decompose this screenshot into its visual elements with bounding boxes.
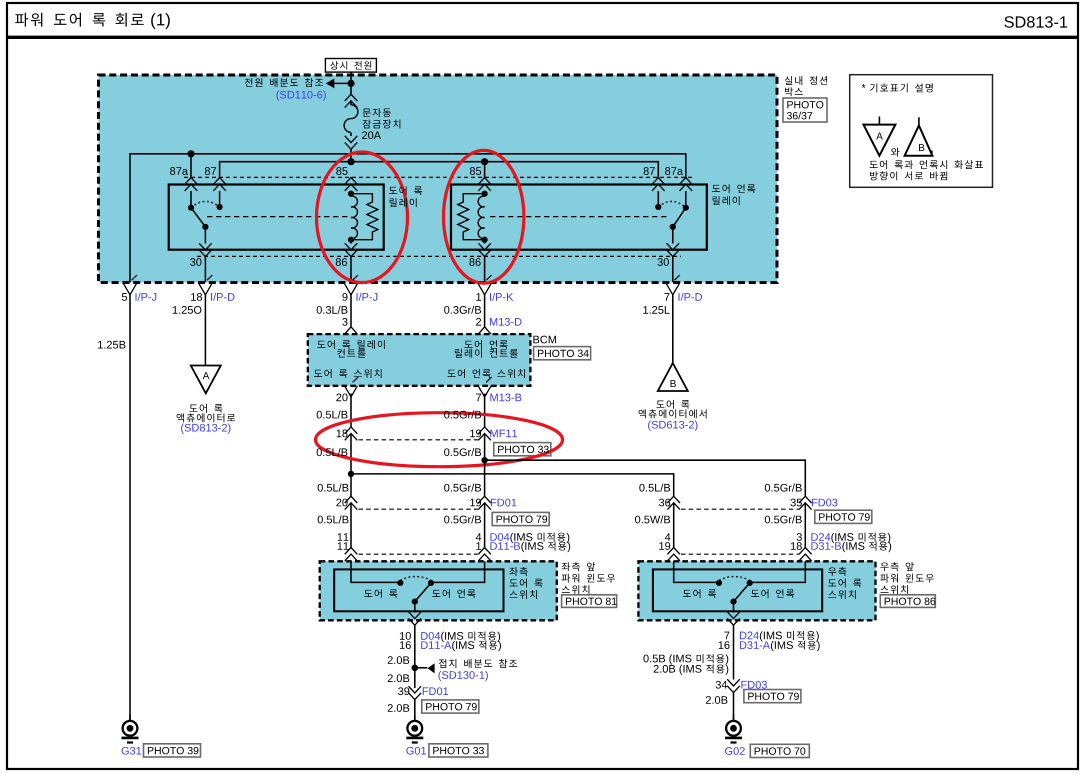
wire I/P-J 1.25B down to G31	[129, 295, 131, 721]
wire pin86 K1 to border	[350, 257, 352, 282]
left front power window switch (door lock switch) lever output wire	[414, 602, 416, 613]
relay K1 resistor	[351, 194, 378, 240]
photo ref G31	[144, 744, 201, 757]
off-page triangle A (to door lock actuator)	[191, 366, 221, 394]
wire 85 right drop	[484, 162, 486, 178]
wire FD03 pin35 down	[804, 503, 806, 548]
left front power window switch (door lock switch) unlock side wire	[431, 561, 485, 582]
fuse 20A (door auto lock)	[344, 83, 358, 161]
relay K1 lever to pin 30	[204, 227, 206, 244]
door lock relay K1 box	[169, 185, 384, 250]
connector FD01 pin 39	[409, 686, 422, 699]
relay K2 resistor	[458, 194, 485, 240]
wire BCM pin7 down	[484, 394, 486, 428]
connector FD03 pin 36	[667, 496, 680, 509]
right front power window switch (door lock switch) (cyan dashed box)	[638, 561, 875, 620]
junction box exit connector at x=351	[345, 275, 358, 295]
reference arrow to power distribution (SD110-6)	[326, 79, 351, 89]
right front power window switch (door lock switch) inner case	[653, 569, 822, 611]
node bus B / fuse junction	[347, 158, 354, 165]
ground G01	[406, 714, 423, 742]
left front power window switch (door lock switch) inner case	[334, 569, 503, 611]
reference arrow to ground distribution (SD130-1)	[415, 663, 435, 673]
junction box exit connector at x=130	[124, 275, 137, 295]
left front power window switch (door lock switch) lock side wire	[351, 561, 400, 582]
wire 0.5L/B continue down	[350, 474, 352, 497]
wire 0.3Gr/B to BCM	[484, 295, 486, 327]
node ground distribution tap	[412, 665, 419, 672]
wire I/P-D 1.25L to actuator	[672, 295, 674, 364]
wire power feed into box	[350, 72, 352, 83]
relay K2 lever to pin 30	[672, 227, 674, 244]
legend box frame	[850, 75, 993, 188]
wire BCM pin20 down	[350, 394, 352, 428]
highlight ellipse around K2 coil	[444, 150, 524, 283]
wire branch 0.5Gr/B to right	[485, 460, 806, 496]
legend symbol B (up triangle)	[905, 117, 933, 156]
interior junction box (cyan dashed block)	[99, 75, 778, 283]
wire FD01 pin19 down	[484, 503, 486, 548]
relay K2 pin 87 entry	[652, 178, 665, 208]
relay K2 pin 85 entry	[478, 178, 491, 194]
photo ref FD03	[815, 510, 872, 523]
relay K1 pin 87a entry	[185, 178, 198, 208]
wire switch output down right	[733, 625, 735, 680]
left front power window switch (door lock switch) photo ref	[562, 595, 617, 608]
node power junction	[347, 80, 354, 87]
switch entry dashed pair link left	[359, 553, 479, 555]
photo ref FD01 ground	[422, 700, 479, 713]
relay K1 contact 87	[217, 204, 223, 210]
connector FD03 pin 34	[727, 679, 740, 692]
relay K1 switch lever	[191, 208, 208, 230]
BCM module box (cyan dashed)	[308, 334, 531, 386]
left front power window switch (door lock switch) unlock contact	[428, 580, 434, 586]
relay K2 contact link arc	[658, 201, 686, 207]
wire branch 0.5L/B to right	[351, 474, 674, 497]
right front power window switch (door lock switch) lock contact	[716, 580, 722, 586]
junction box exit connector at x=672.8	[666, 275, 679, 295]
wire 87a left drop	[190, 154, 192, 178]
switch box entry connector x=673.7	[667, 548, 680, 561]
left front power window switch (door lock switch) switch lever	[412, 583, 431, 605]
photo ref MF11	[494, 443, 551, 456]
BCM exit connector pin 7	[478, 377, 491, 397]
relay K2 coil node top	[482, 191, 488, 197]
junction box exit connector at x=484.6	[478, 275, 491, 295]
relay K1 coil node top	[348, 191, 354, 197]
relay K2 pin 86 exit	[478, 240, 491, 257]
right front power window switch (door lock switch) unlock side wire	[750, 561, 806, 582]
node branch 0.5Gr/B	[481, 457, 487, 463]
connector MF11 pin 19	[478, 427, 491, 460]
wire 0.3L/B to BCM	[350, 295, 352, 327]
photo ref G01	[429, 744, 488, 757]
relay K1 pin 86 exit	[345, 240, 358, 257]
title bar separator	[7, 36, 1078, 39]
relay K2 pin 30 exit	[667, 243, 680, 256]
highlight ellipse around MF11	[316, 413, 563, 467]
right front power window switch (door lock switch) unlock contact	[747, 580, 753, 586]
left front power window switch (door lock switch) output connector	[409, 612, 422, 625]
relay K1 contact 87a	[188, 205, 194, 211]
relay K1 coil node bottom	[348, 237, 354, 243]
relay K2 coil	[478, 194, 484, 240]
relay K2 switch lever	[670, 208, 686, 230]
wire switch output down	[414, 625, 416, 688]
left front power window switch (door lock switch) (cyan dashed box)	[320, 561, 557, 620]
right front power window switch (door lock switch) lock side wire	[674, 561, 719, 582]
wire pin30 K1 to border	[204, 257, 206, 282]
right front power window switch (door lock switch) photo ref	[880, 595, 935, 608]
node branch 0.5L/B	[348, 471, 354, 477]
relay K1 pin 85 entry	[345, 178, 358, 194]
connector FD01 pin 20	[345, 496, 358, 509]
photo ref FD01	[492, 512, 549, 525]
photo ref FD03 ground	[744, 690, 801, 703]
junction box pin row (top dashed)	[184, 176, 693, 178]
connector MF11 pin 18	[345, 427, 358, 474]
junction box pin row (bottom dashed)	[197, 255, 681, 257]
switch entry dashed pair link right	[681, 553, 799, 555]
photo ref G02	[750, 744, 809, 757]
highlight ellipse around K1 coil	[317, 152, 408, 283]
photo ref junction box	[783, 98, 827, 122]
relay K2 pin 87a entry	[680, 178, 693, 208]
relay K1 pin 87 entry	[213, 178, 226, 208]
right front power window switch (door lock switch) lever output wire	[733, 602, 735, 613]
switch box entry connector x=351	[345, 548, 358, 561]
relay K2 coil node bottom	[482, 237, 488, 243]
relay K2 contact 87	[655, 204, 661, 210]
relay K2 mechanical dashed link	[490, 216, 668, 218]
BCM exit connector pin 20	[345, 377, 358, 397]
connector FD03 pin 35	[799, 496, 812, 509]
switch box entry connector x=805.3	[799, 548, 812, 561]
node bus B / right 85 tap	[481, 158, 488, 165]
relay K2 contact 87a	[683, 205, 689, 211]
left front power window switch (door lock switch) contact link arc	[400, 577, 431, 581]
ground G31	[122, 714, 139, 742]
right front power window switch (door lock switch) output connector	[727, 612, 740, 625]
wire FD01 pin20 down	[350, 503, 352, 548]
relay K1 contact link arc	[191, 201, 220, 207]
BCM entry connector pin 2	[478, 327, 491, 343]
right front power window switch (door lock switch) switch lever	[730, 583, 749, 605]
right front power window switch (door lock switch) contact link arc	[719, 577, 750, 581]
wire pin86 K2 to border	[484, 257, 486, 282]
wire to ground G01	[414, 700, 416, 721]
wire pin30 K2 to border	[672, 257, 674, 282]
door unlock relay K2 box	[451, 185, 707, 250]
wire bus line A	[130, 154, 686, 283]
connector FD01 dashed pair link	[359, 508, 479, 510]
wire bus line B	[220, 162, 659, 178]
switch box entry connector x=484.6	[478, 548, 491, 561]
relay K1 mechanical dashed link	[207, 216, 349, 218]
ground G02	[725, 714, 742, 742]
legend symbol A (down triangle)	[864, 117, 896, 156]
connector FD01 pin 19	[478, 496, 491, 509]
BCM entry connector pin 3	[345, 327, 358, 343]
connector FD03 dashed pair link	[681, 508, 799, 510]
relay K1 pin 30 exit	[199, 243, 212, 256]
wire FD03 pin36 down	[673, 503, 675, 548]
junction box exit connector at x=205.4	[199, 275, 212, 295]
left front power window switch (door lock switch) lock contact	[397, 580, 403, 586]
photo ref BCM	[534, 347, 591, 360]
node bus A / 87a tap	[187, 150, 194, 157]
relay K1 coil	[351, 194, 357, 240]
node: constant power label box	[325, 59, 376, 73]
wire I/P-D 1.25O to actuator	[204, 295, 206, 366]
wire 0.5Gr/B continue down	[484, 460, 486, 496]
wire to ground G02	[733, 693, 735, 721]
connector MF11 dashed pair link	[359, 439, 479, 441]
off-page triangle B (from door lock actuator)	[658, 363, 688, 391]
